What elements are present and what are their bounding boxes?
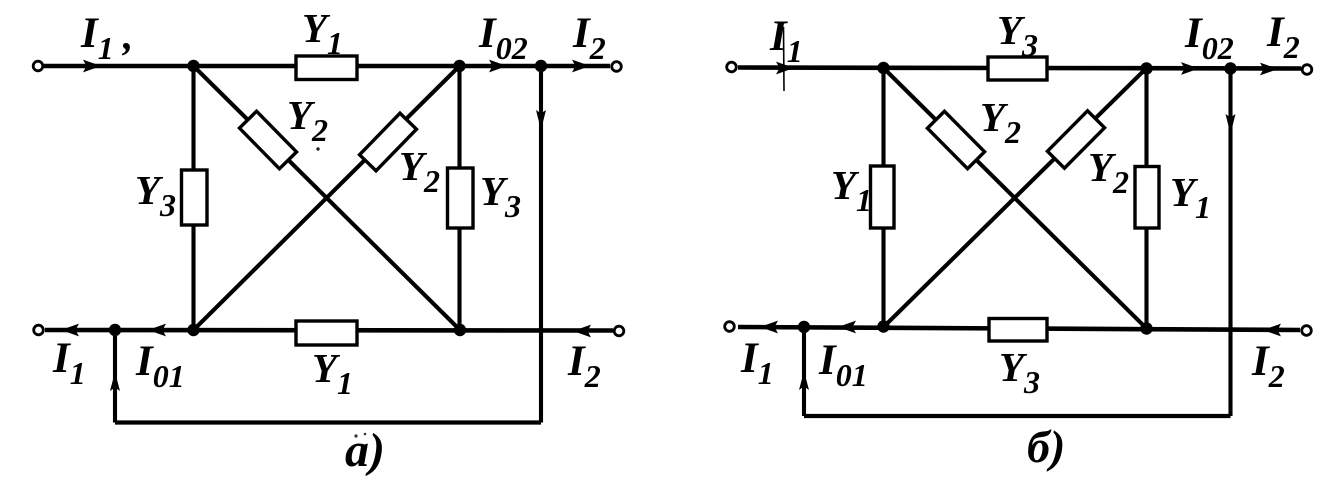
terminal: port 2 top, circuit a	[612, 62, 622, 72]
arrow: I2 into bottom right, circuit a	[573, 325, 591, 338]
wire: top conductor (port1 to port2), circuit b	[738, 68, 1301, 69]
admittance Y2 (diagonal TL-BR), circuit a	[239, 111, 296, 168]
wire: left vertical branch Y1, circuit b	[881, 68, 885, 327]
wire: diagonal branch Y2 (bottom-left to top-right), circuit a	[194, 66, 460, 330]
node: bottom-left junction, circuit b	[877, 320, 889, 332]
svg-text:I01: I01	[818, 337, 868, 393]
svg-text:I1: I1	[80, 10, 114, 66]
arrow: I1 out of bottom port1, circuit b	[760, 321, 778, 334]
node: bottom-left junction, circuit a	[187, 324, 199, 336]
admittance Y1 (bottom series), circuit a	[296, 321, 357, 345]
arrow: current I2 out to port2, circuit b	[1260, 63, 1278, 76]
svg-text:Y1: Y1	[831, 162, 872, 218]
arrow: current I1 into port1, circuit a	[83, 60, 101, 73]
stray scan tick through I1, circuit b	[783, 27, 786, 91]
node: bottom feedback junction I01, circuit a	[109, 324, 121, 336]
svg-text:Y3: Y3	[480, 168, 521, 224]
wire: bottom conductor, circuit a	[45, 328, 613, 333]
arrow: I01 up from feedback, circuit a	[110, 372, 120, 391]
wire: diagonal branch Y2 (top-left to bottom-right), circuit b	[884, 68, 1147, 329]
svg-text:I2: I2	[572, 10, 606, 66]
wire: top conductor (port1 to port2), circuit a	[44, 64, 610, 69]
svg-text:I2: I2	[567, 338, 601, 394]
admittance Y2 (diagonal BL-TR), circuit b	[1047, 111, 1104, 168]
svg-text:I2: I2	[1266, 9, 1300, 65]
svg-text:I1: I1	[740, 335, 774, 391]
svg-text:,: ,	[122, 12, 133, 58]
svg-text:Y2: Y2	[980, 94, 1021, 150]
arrow: I2 return down feedback, circuit a	[536, 110, 546, 130]
svg-text:Y2: Y2	[399, 143, 440, 199]
terminal: port 1 bottom, circuit a	[34, 325, 44, 335]
admittance Y3 (top series), circuit b	[988, 57, 1047, 80]
terminal: port 1 top, circuit a	[33, 61, 43, 71]
wire: feedback bottom horizontal, circuit b	[804, 414, 1231, 418]
arrow: current I02, circuit a	[489, 60, 507, 73]
admittance Y1 (top series), circuit a	[296, 56, 357, 80]
node: bottom feedback junction I01, circuit b	[798, 321, 810, 333]
admittance Y1 (right shunt), circuit b	[1135, 167, 1159, 229]
speck above caption a)	[354, 434, 357, 437]
node: top-right junction, circuit b	[1140, 62, 1152, 74]
arrow: current I1 into port1, circuit b	[776, 62, 794, 75]
node: top feedback tap junction, circuit a	[535, 60, 547, 72]
node: top-left junction, circuit b	[877, 62, 889, 74]
svg-text:I1: I1	[769, 13, 803, 69]
svg-text:Y1: Y1	[312, 345, 353, 401]
svg-text:Y3: Y3	[999, 344, 1040, 400]
svg-text:Y2: Y2	[1088, 144, 1129, 200]
svg-text:б): б)	[1027, 421, 1065, 472]
node: bottom-right junction, circuit a	[454, 324, 466, 336]
wire: right vertical branch Y3, circuit a	[457, 66, 461, 330]
svg-text:а): а)	[345, 424, 385, 477]
svg-text:I01: I01	[135, 338, 185, 394]
wire: feedback bottom horizontal, circuit a	[115, 420, 541, 424]
svg-text:Y1: Y1	[302, 5, 343, 61]
admittance Y3 (left shunt), circuit a	[182, 170, 208, 225]
arrow: I2 into bottom right, circuit b	[1263, 324, 1281, 337]
svg-text:I02: I02	[1184, 10, 1234, 66]
admittance Y1 (left shunt), circuit b	[871, 166, 895, 228]
node: bottom-right junction, circuit b	[1140, 322, 1152, 334]
admittance Y3 (right shunt), circuit a	[448, 168, 474, 228]
admittance Y2 (diagonal BL-TR), circuit a	[360, 113, 417, 171]
node: top feedback tap junction, circuit b	[1224, 62, 1236, 74]
arrow: I1 out of bottom port1, circuit a	[61, 324, 79, 337]
wire: right vertical branch Y1, circuit b	[1144, 68, 1148, 329]
svg-text:I1: I1	[52, 335, 86, 391]
admittance Y3 (bottom series), circuit b	[989, 319, 1047, 342]
arrow: current I2 out to port2, circuit a	[572, 60, 590, 73]
arrow: I01 up from feedback, circuit b	[799, 371, 809, 390]
wire: left vertical branch Y3, circuit a	[191, 66, 195, 330]
terminal: port 2 bottom, circuit b	[1302, 326, 1312, 336]
terminal: port 2 top, circuit b	[1302, 65, 1312, 75]
wire: feedback right vertical (I2 return), circuit b	[1228, 68, 1232, 416]
arrow: I01 toward port1, circuit b	[838, 321, 856, 334]
svg-text:Y1: Y1	[1170, 169, 1211, 225]
arrow: current I02, circuit b	[1181, 62, 1199, 75]
terminal: port 1 top, circuit b	[727, 62, 737, 72]
svg-text:Y2: Y2	[287, 92, 328, 148]
svg-text:I2: I2	[1251, 338, 1285, 394]
svg-text:Y3: Y3	[997, 7, 1038, 63]
wire: feedback left vertical (I01 return), circuit b	[802, 327, 806, 416]
wire: feedback left vertical (I01 return), circuit a	[113, 330, 117, 423]
node: top-right junction, circuit a	[453, 60, 465, 72]
wire: diagonal branch Y2 (top-left to bottom-right), circuit a	[194, 66, 461, 330]
svg-text:Y3: Y3	[135, 167, 176, 223]
terminal: port 2 bottom, circuit a	[614, 326, 624, 336]
wire: diagonal branch Y2 (bottom-left to top-right), circuit b	[884, 68, 1147, 327]
terminal: port 1 bottom, circuit b	[725, 322, 735, 332]
svg-text:I02: I02	[478, 10, 528, 66]
wire: bottom conductor, circuit b	[738, 327, 1300, 330]
wire: feedback right vertical (I2 return), circuit a	[539, 66, 543, 423]
arrow: I2 return down feedback, circuit b	[1226, 114, 1236, 134]
arrow: I01 toward port1, circuit a	[148, 324, 166, 337]
node: top-left junction, circuit a	[187, 60, 199, 72]
admittance Y2 (diagonal TL-BR), circuit b	[927, 111, 984, 168]
speck near Y2 label, circuit a	[316, 147, 319, 150]
